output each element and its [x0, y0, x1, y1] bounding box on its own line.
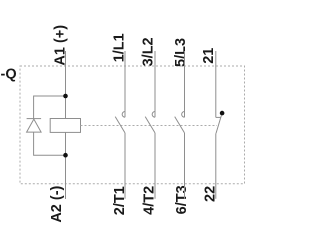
contact blade L2 [145, 117, 155, 133]
contact blade L3 [175, 117, 185, 133]
contact fixed hook L1 [122, 112, 125, 118]
wire 1/L1 stem [124, 51, 126, 117]
svg-text:A1 (+): A1 (+) [53, 25, 69, 66]
contact fixed hook L3 [182, 112, 185, 118]
wire 4/T2 stem [154, 133, 156, 199]
mechanical linkage dashed line [81, 125, 218, 127]
contact point dot aux [220, 111, 225, 116]
svg-text:-Q: -Q [1, 67, 17, 83]
wire 21 stem [215, 51, 217, 117]
wire branch bottom [34, 132, 66, 155]
main contact 1/L1-2/T1 [115, 51, 125, 199]
svg-text:3/L2: 3/L2 [141, 37, 157, 66]
wire junction to coil top [65, 96, 67, 119]
wire 5/L3 stem [184, 51, 186, 117]
contact fixed hook L2 [152, 112, 155, 118]
main contact 3/L2-4/T2 [145, 51, 155, 199]
wire A1 terminal stem [65, 51, 67, 96]
coil K (operating coil rectangle) [50, 119, 80, 133]
auxiliary contact 21-22 [216, 51, 222, 199]
wire 22 stem [215, 133, 217, 198]
contact blade L1 [115, 117, 125, 133]
diode V1 cathode bar [27, 118, 41, 120]
contact fixed jog 21 [216, 116, 221, 118]
wire coil bottom to junction [65, 132, 67, 155]
wire A2 terminal stem [65, 155, 67, 199]
svg-text:6/T3: 6/T3 [174, 185, 190, 214]
wire branch top [34, 96, 66, 119]
contact blade aux [216, 115, 221, 133]
wire 2/T1 stem [124, 133, 126, 199]
main contact 5/L3-6/T3 [175, 51, 185, 199]
svg-text:21: 21 [201, 48, 217, 64]
svg-text:2/T1: 2/T1 [112, 186, 128, 215]
wire 3/L2 stem [154, 51, 156, 117]
diode V1 triangle [27, 119, 41, 132]
junction node at A1 branch [63, 94, 68, 99]
svg-text:5/L3: 5/L3 [173, 38, 189, 67]
dashed enclosure border of contactor -Q [20, 66, 245, 184]
wire 6/T3 stem [184, 133, 186, 199]
junction node at A2 branch [63, 153, 68, 158]
svg-text:A2 (-): A2 (-) [49, 185, 65, 222]
